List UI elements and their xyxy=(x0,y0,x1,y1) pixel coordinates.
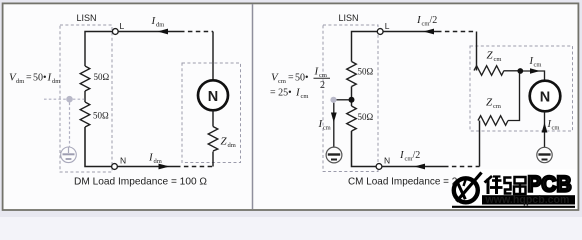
svg-text:2: 2 xyxy=(320,80,325,91)
junction dot load xyxy=(517,68,523,74)
watermark logo ring xyxy=(454,178,478,202)
wire: junction to ground tap xyxy=(337,99,350,101)
svg-text:/2: /2 xyxy=(430,15,438,26)
svg-text:cm: cm xyxy=(493,103,501,110)
wire: bottom N line solid xyxy=(118,166,176,168)
watermark underline xyxy=(452,206,575,208)
ground (earth, gray) xyxy=(61,147,77,163)
resistor R4 50ohm lower right xyxy=(347,106,357,131)
svg-text:PCB: PCB xyxy=(528,172,572,197)
svg-text:50•: 50• xyxy=(295,73,309,84)
wire: bottom N line dashed right xyxy=(444,166,480,168)
svg-text:LISN: LISN xyxy=(339,13,359,23)
svg-text:N: N xyxy=(120,156,126,166)
resistor R3 50ohm upper right xyxy=(347,62,357,87)
resistor R1 50ohm upper xyxy=(80,66,90,91)
tap wire down (gray dashed) xyxy=(69,103,71,147)
wire: junction to source top xyxy=(523,71,545,81)
wire: top L line solid right xyxy=(383,31,437,33)
tap node (gray dot) xyxy=(66,96,73,103)
svg-text:cm: cm xyxy=(494,56,502,63)
wire: right branch top xyxy=(212,32,214,81)
svg-text:dm: dm xyxy=(154,158,162,165)
svg-text:= 25•: = 25• xyxy=(270,88,292,99)
arrow Idm top (points left) xyxy=(158,29,169,35)
wire: source to Zdm xyxy=(212,111,214,127)
svg-text:cm: cm xyxy=(323,125,331,132)
svg-text:cm: cm xyxy=(552,125,560,132)
svg-text:L: L xyxy=(120,21,125,31)
svg-text:N: N xyxy=(384,156,390,166)
svg-text:50•: 50• xyxy=(33,73,47,84)
svg-text:DM Load Impedance = 100 Ω: DM Load Impedance = 100 Ω xyxy=(74,175,207,187)
svg-text:=: = xyxy=(26,73,32,84)
ground (earth) under LISN xyxy=(326,147,342,163)
wire: between resistors right xyxy=(351,87,353,107)
svg-text:Z: Z xyxy=(487,50,494,62)
svg-text:50Ω: 50Ω xyxy=(358,67,374,77)
arrow Icm up xyxy=(542,123,548,133)
svg-text:dm: dm xyxy=(52,78,60,85)
wire: LISN chain top right xyxy=(352,32,378,62)
watermark logo V stroke xyxy=(458,183,466,200)
noise source U1 xyxy=(198,80,228,110)
watermark logo slash xyxy=(457,173,482,202)
junction dot LISN xyxy=(349,97,355,103)
watermark url band xyxy=(482,195,575,204)
svg-text:=: = xyxy=(288,73,294,84)
watermark logo inner mark xyxy=(464,177,467,186)
resistor R2 50ohm lower xyxy=(80,102,90,127)
Zcm load box (dashed) xyxy=(470,46,573,131)
svg-text:50Ω: 50Ω xyxy=(93,111,109,121)
wire: top L line dashed right xyxy=(437,31,477,33)
LISN box right (dashed) xyxy=(323,25,378,172)
node N (bottom) xyxy=(112,164,118,170)
ground (earth) right xyxy=(537,147,552,162)
svg-text:N: N xyxy=(208,89,218,105)
noise source U2 xyxy=(530,81,561,112)
wire: LISN chain bottom right xyxy=(352,131,377,167)
svg-text:cm: cm xyxy=(405,156,413,163)
svg-text:50Ω: 50Ω xyxy=(358,112,374,122)
svg-text:Z: Z xyxy=(221,136,228,148)
panel divider xyxy=(252,4,254,209)
wire: Zcm upper to junction xyxy=(504,70,518,72)
svg-text:cm: cm xyxy=(534,62,542,69)
resistor Zcm lower (horizontal) xyxy=(478,116,508,126)
Zdm load box (dashed) xyxy=(182,63,241,163)
tap node gray dot right xyxy=(330,97,336,103)
wire: between resistors xyxy=(84,91,86,102)
LISN box (dashed) xyxy=(60,25,112,172)
resistor Zcm upper (horizontal) xyxy=(474,66,504,76)
tap wire (gray dashed) from resistor junction xyxy=(44,98,85,100)
watermark white halo xyxy=(458,170,576,210)
wire: top L line solid xyxy=(118,31,180,33)
resistor Zdm xyxy=(208,127,218,152)
svg-text:dm: dm xyxy=(228,142,236,149)
wire: bottom riser to Zcm lower xyxy=(479,121,481,167)
wire: Zdm to bottom xyxy=(212,152,214,167)
arrow Icm down xyxy=(331,113,337,123)
node L xyxy=(112,29,118,35)
svg-text:dm: dm xyxy=(156,22,164,29)
watermark qiang glyph xyxy=(505,177,526,194)
wire: bottom N line dashed xyxy=(176,166,213,168)
watermark hua glyph xyxy=(485,176,503,194)
svg-text:N: N xyxy=(540,90,550,106)
wire: tap down to ground xyxy=(333,103,335,147)
arrow Idm bottom (points right) xyxy=(159,164,170,170)
svg-text:dm: dm xyxy=(16,78,24,85)
wire: LISN chain top xyxy=(85,32,112,67)
arrow Icm/2 bottom (points left) xyxy=(414,164,425,170)
wire: source bottom to ground xyxy=(544,112,546,148)
wire: Zcm lower to junction riser xyxy=(508,74,520,121)
svg-text:cm: cm xyxy=(422,21,430,28)
wire: top L line dashed xyxy=(180,31,213,33)
node L right xyxy=(377,29,383,35)
svg-text:Z: Z xyxy=(486,97,493,109)
svg-text:LISN: LISN xyxy=(77,13,97,23)
wire: LISN chain bottom xyxy=(85,127,112,167)
wire: right riser from top line xyxy=(476,32,478,71)
svg-text:/2: /2 xyxy=(413,150,421,161)
arrow Icm/2 top (points left) xyxy=(423,29,434,35)
arrow Icm right (points right) xyxy=(530,68,540,74)
svg-text:L: L xyxy=(385,21,390,31)
wire: bottom N line solid right xyxy=(382,166,444,168)
svg-text:cm: cm xyxy=(301,93,309,100)
svg-text:www.hqpcb.com: www.hqpcb.com xyxy=(485,194,570,206)
node N right xyxy=(376,164,382,170)
svg-text:cm: cm xyxy=(278,78,286,85)
svg-text:50Ω: 50Ω xyxy=(94,72,110,82)
